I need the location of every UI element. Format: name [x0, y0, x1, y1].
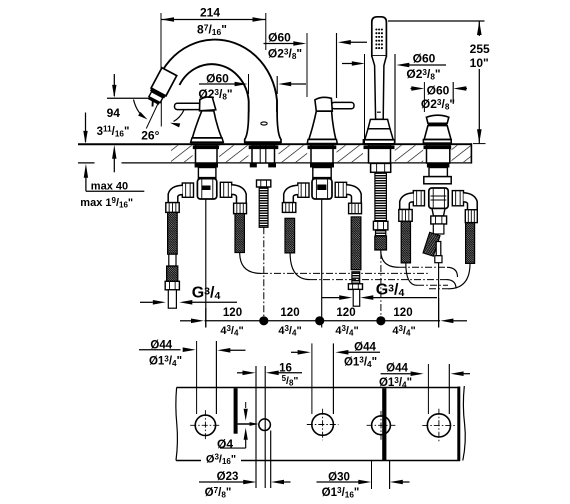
svg-text:43/4": 43/4"	[392, 324, 415, 338]
svg-text:120: 120	[280, 307, 299, 319]
svg-text:255: 255	[470, 42, 490, 56]
svg-text:120: 120	[223, 307, 242, 319]
svg-text:214: 214	[200, 5, 220, 19]
svg-text:43/4": 43/4"	[335, 324, 358, 338]
svg-text:26°: 26°	[141, 129, 159, 143]
svg-text:120: 120	[393, 307, 412, 319]
svg-text:Ø3/16": Ø3/16"	[206, 452, 236, 466]
svg-text:43/4": 43/4"	[278, 324, 301, 338]
svg-text:Ø60: Ø60	[427, 84, 450, 98]
svg-text:max 40: max 40	[91, 180, 128, 192]
svg-text:Ø4: Ø4	[217, 437, 233, 451]
svg-text:94: 94	[107, 106, 121, 120]
svg-text:Ø7/8": Ø7/8"	[205, 486, 232, 500]
svg-text:Ø60: Ø60	[413, 52, 436, 66]
svg-text:43/4": 43/4"	[220, 324, 243, 338]
svg-text:10": 10"	[470, 56, 489, 70]
svg-text:Ø60: Ø60	[268, 31, 291, 45]
svg-text:Ø44: Ø44	[386, 363, 408, 375]
svg-text:311/16": 311/16"	[97, 125, 130, 139]
svg-text:Ø23: Ø23	[217, 471, 239, 483]
svg-text:120: 120	[336, 307, 355, 319]
